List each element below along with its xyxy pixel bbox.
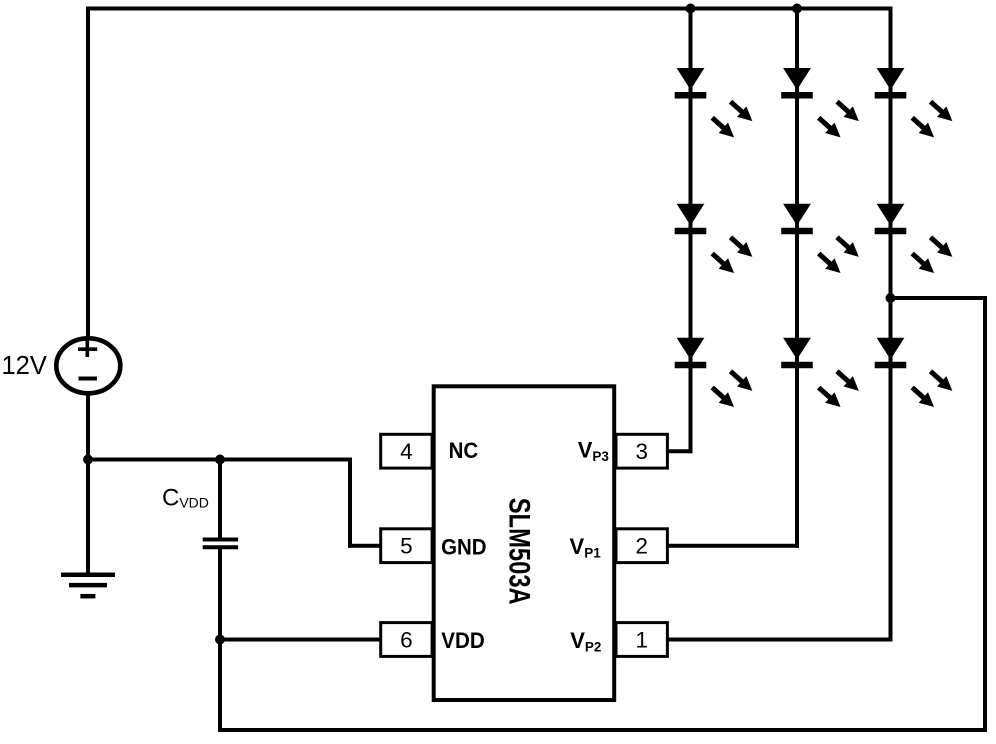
LED D2 xyxy=(675,204,757,278)
svg-text:NC: NC xyxy=(449,438,479,463)
op IC U1 SLM503A body xyxy=(434,386,615,700)
wire LED string 2 xyxy=(795,9,799,546)
svg-text:GND: GND xyxy=(441,534,487,559)
wire cap top lead xyxy=(218,460,222,538)
wire top rail xyxy=(88,7,891,11)
pin box 1 (VP2) xyxy=(616,623,667,657)
node B junction (cap top) xyxy=(215,455,225,465)
wire node C down to bottom rail xyxy=(218,640,222,731)
svg-text:4: 4 xyxy=(400,439,413,464)
wire node D to right rail xyxy=(891,296,986,300)
LED D3 xyxy=(675,338,757,412)
pin box 4 (NC) xyxy=(381,434,432,468)
node D junction (string 3 tap) xyxy=(886,293,896,303)
svg-text:2: 2 xyxy=(635,534,648,559)
LED D9 xyxy=(875,338,957,412)
pin box 5 (GND) xyxy=(381,529,432,563)
svg-text:12V: 12V xyxy=(2,352,47,380)
wire source to node A xyxy=(86,397,90,460)
svg-text:6: 6 xyxy=(400,627,413,652)
capacitor CVDD xyxy=(203,540,238,548)
wire left rail upper xyxy=(86,9,90,335)
voltage source V1 12V xyxy=(56,338,120,393)
pin box 3 (VP3) xyxy=(616,434,667,468)
junction top rail / string 2 xyxy=(792,4,802,14)
ground xyxy=(61,575,115,596)
LED D1 xyxy=(675,69,757,143)
wire LED string 3 xyxy=(889,9,893,640)
pin box 6 (VDD) xyxy=(381,623,432,657)
wire string 3 to pin 1 xyxy=(667,638,890,642)
node A junction xyxy=(83,455,93,465)
wire cap bottom lead xyxy=(218,549,222,639)
wire string 2 to pin 2 xyxy=(667,544,797,548)
LED D6 xyxy=(781,338,863,412)
wire LED string 1 xyxy=(689,9,693,452)
svg-text:3: 3 xyxy=(635,439,648,464)
wire node C to pin 6 xyxy=(220,638,381,642)
wire right rail xyxy=(983,298,987,730)
wire to pin 5 xyxy=(350,544,381,548)
svg-text:1: 1 xyxy=(635,627,648,652)
wire node A to cap/pin5 branch xyxy=(88,458,350,462)
LED D8 xyxy=(875,204,957,278)
pin box 2 (VP1) xyxy=(616,529,667,563)
wire gnd-branch vertical xyxy=(348,460,352,546)
LED D7 xyxy=(875,69,957,143)
LED D4 xyxy=(781,69,863,143)
svg-text:5: 5 xyxy=(400,534,413,559)
wire string 1 to pin 3 xyxy=(667,449,690,453)
wire bottom rail xyxy=(220,728,985,732)
wire ground stem xyxy=(86,460,90,574)
svg-text:VDD: VDD xyxy=(441,628,485,653)
svg-text:SLM503A: SLM503A xyxy=(503,498,536,605)
node C junction (cap bottom) xyxy=(215,635,225,645)
LED D5 xyxy=(781,204,863,278)
junction top rail / string 1 xyxy=(686,4,696,14)
